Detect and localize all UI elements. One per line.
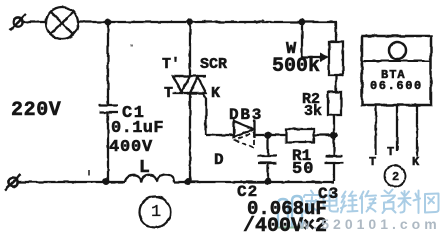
label 3k: [304, 104, 322, 119]
speck near lamp: [130, 44, 133, 46]
wire pot to R2: [335, 75, 337, 92]
terminal bottom-left: [5, 174, 21, 190]
node junction wiper top: [299, 19, 306, 26]
label C1 value: [111, 120, 164, 137]
label pin K: [412, 156, 419, 168]
wire terminal to lamp: [23, 21, 46, 23]
watermark char jia: [304, 191, 320, 214]
wire top: [78, 21, 337, 23]
watermark char xiu: [360, 191, 376, 213]
watermark char zi: [382, 190, 396, 214]
node junction C2 top: [265, 132, 272, 139]
node junction R1 R2 C3: [331, 132, 338, 139]
lamp: [46, 7, 78, 39]
label C2C3 value: [247, 200, 327, 219]
node junction C1 top: [105, 19, 112, 26]
label figure 1: [151, 204, 161, 221]
label 220V: [11, 101, 61, 121]
resistor R2: [328, 92, 341, 135]
label C2C3 voltage: [243, 217, 327, 237]
wire bottom left: [18, 181, 125, 183]
wire bottom right: [174, 181, 334, 183]
watermark char wei: [341, 192, 358, 213]
label T prime: [162, 57, 180, 72]
resistor R1: [286, 129, 334, 142]
node junction triac bottom: [185, 178, 192, 185]
capacitor C1: [99, 22, 118, 181]
figure circle 1: [140, 197, 171, 228]
speck on top wire: [261, 19, 264, 22]
label 06.600: [370, 80, 423, 92]
watermark char dian: [323, 191, 338, 212]
label figure 2: [392, 171, 399, 183]
capacitor C2: [258, 135, 277, 181]
label pin T: [369, 156, 376, 168]
label K triac: [211, 86, 220, 101]
package BTA06-600 outline: [362, 36, 431, 105]
node junction C1 bottom: [103, 178, 110, 185]
label R2: [302, 92, 320, 107]
label pin T prime: [387, 146, 401, 158]
speck near bottom wire: [88, 170, 90, 175]
node junction triac top: [187, 19, 194, 26]
wire diac to node: [255, 134, 286, 136]
label D: [214, 152, 224, 168]
label SCR: [200, 57, 227, 72]
label R1: [292, 148, 311, 164]
label C1 voltage: [109, 139, 153, 156]
capacitor C3: [325, 135, 343, 181]
package pin K: [416, 105, 418, 157]
terminal top-left: [10, 14, 26, 30]
watermark char wang: [425, 194, 439, 213]
label 500k: [272, 57, 320, 77]
wire triac gate: [203, 93, 235, 135]
triac SCR: [172, 22, 206, 181]
label DB3: [229, 107, 263, 123]
watermark icon: [276, 196, 304, 228]
label W: [286, 41, 296, 58]
figure circle 2: [385, 166, 406, 187]
label 50: [292, 161, 314, 178]
label T triac: [164, 86, 173, 101]
potentiometer wiper arrow: [302, 22, 329, 62]
potentiometer W body: [329, 22, 343, 75]
diac DB3: [234, 120, 255, 148]
package pin T: [375, 105, 377, 155]
label C2: [237, 184, 258, 200]
package pin T2: [396, 105, 398, 151]
label C1: [122, 105, 145, 122]
watermark char liao: [399, 191, 421, 214]
watermark url: [299, 217, 441, 231]
label BTA: [381, 69, 406, 81]
label L: [139, 159, 150, 177]
label C3: [318, 186, 339, 202]
node junction C2 bottom: [265, 178, 272, 185]
inductor L: [125, 175, 174, 182]
